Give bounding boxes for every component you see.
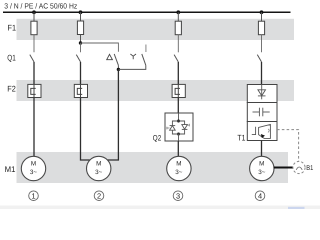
rectifier diode	[258, 85, 266, 100]
svg-text:M: M	[31, 160, 36, 167]
bus wire	[3, 11, 291, 13]
wire star branch to node	[118, 65, 145, 69]
svg-text:M1: M1	[5, 165, 16, 174]
overload relay F2.2	[74, 84, 87, 97]
junction node col1	[32, 10, 36, 14]
junction node delta-star	[117, 68, 120, 71]
row band F2	[17, 80, 295, 101]
tacho B1 dashed circle	[293, 161, 305, 173]
wire switch to overload col1	[33, 62, 35, 85]
switch Q1.3 blade	[174, 55, 178, 62]
variant number 2	[94, 191, 104, 201]
svg-text:M: M	[259, 160, 264, 167]
wire overload to motor col1	[33, 98, 35, 158]
switch Q1.2 main blade	[76, 55, 80, 62]
svg-text:3~: 3~	[258, 169, 266, 176]
overload relay F2.3	[172, 84, 185, 97]
wire bus to fuse col3	[177, 12, 179, 21]
fuse F1.1	[31, 21, 37, 35]
wire fuse to switch col1	[33, 35, 35, 53]
shaft motor4 to tacho	[274, 167, 293, 169]
junction node col2 branch	[79, 41, 82, 44]
motor M1.4	[250, 156, 274, 180]
motor M1.1	[21, 156, 45, 180]
wire branch top horizontal	[81, 43, 119, 52]
svg-text:M: M	[176, 160, 181, 167]
svg-text:T1: T1	[237, 134, 245, 143]
star symbol	[130, 54, 136, 59]
wire soft starter to motor3	[177, 141, 179, 157]
switch Q1.1 blade	[30, 55, 34, 62]
wire fuse to switch col4	[261, 35, 263, 53]
wire overload to soft starter	[177, 98, 179, 114]
fuse F1.2	[77, 21, 83, 35]
wire main switch to overload col2	[80, 62, 82, 85]
overload relay F2.1	[28, 84, 41, 97]
wire fuse to branch node col2	[80, 35, 82, 44]
fuse F1.3	[175, 21, 181, 35]
contactor star blade	[142, 54, 146, 65]
variant number 1	[29, 191, 39, 201]
svg-text:3~: 3~	[30, 169, 38, 176]
wire fuse to switch col3	[177, 35, 179, 53]
contactor delta blade	[114, 54, 118, 65]
wire switch to overload col3	[177, 62, 179, 85]
switch Q1.4 blade	[257, 55, 261, 62]
svg-text:B1: B1	[306, 165, 313, 172]
svg-text:3~: 3~	[175, 169, 183, 176]
wire switch to inverter col4	[261, 62, 263, 85]
junction node col3	[176, 10, 180, 14]
svg-text:4: 4	[258, 191, 262, 200]
footer blue mark	[288, 207, 305, 209]
dashed control wire to tacho	[277, 130, 299, 162]
svg-text:M: M	[96, 160, 101, 167]
row band F1	[17, 19, 295, 40]
svg-text:3~: 3~	[95, 169, 103, 176]
inverter T1 rectifier box	[247, 85, 277, 103]
svg-text:Q1: Q1	[7, 54, 16, 63]
inverter IGBT symbol	[252, 124, 271, 138]
thyristor left (conducting up)	[167, 126, 175, 131]
wire node to motor2 right lead	[107, 69, 118, 160]
svg-text:1: 1	[31, 191, 35, 200]
svg-text:Q2: Q2	[153, 134, 161, 143]
soft starter internal bridge	[172, 113, 184, 141]
junction node col2	[79, 10, 83, 14]
wire bus to fuse col4	[261, 12, 263, 21]
variant number 4	[255, 191, 265, 201]
variant number 3	[173, 191, 183, 201]
wire overload to motor2 left lead	[81, 98, 91, 161]
star contactor stub	[145, 45, 147, 53]
dc-link capacitor	[253, 108, 270, 117]
fuse F1.4	[258, 21, 264, 35]
svg-text:F2: F2	[7, 84, 16, 93]
motor M1.3	[167, 156, 191, 180]
junction node col4	[260, 10, 264, 14]
wire bus to fuse col2	[80, 12, 82, 21]
inverter T1 dc-link box	[247, 103, 277, 122]
delta symbol	[107, 54, 113, 59]
wire node to main switch	[80, 43, 82, 52]
svg-text:2: 2	[97, 191, 101, 200]
wire bus to fuse col1	[33, 12, 35, 21]
thyristor right (conducting down)	[182, 124, 190, 130]
svg-text:3: 3	[176, 191, 180, 200]
motor M1.2	[87, 156, 111, 180]
soft starter Q2 box	[165, 113, 193, 141]
svg-text:3 / N / PE / AC 50/60 Hz: 3 / N / PE / AC 50/60 Hz	[4, 1, 77, 10]
svg-text:F1: F1	[8, 24, 17, 33]
footer strip	[0, 206, 320, 210]
row band M1	[17, 152, 289, 183]
wire delta blade to node	[117, 65, 119, 69]
inverter T1 output box	[247, 122, 277, 141]
wire inverter to motor4	[261, 141, 263, 158]
